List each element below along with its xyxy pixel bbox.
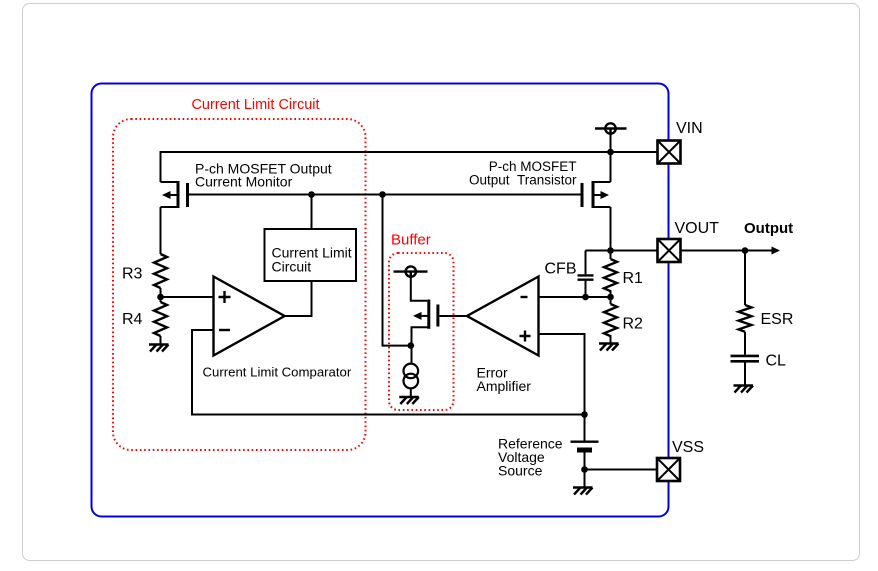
wire: monitor FET source to R3 xyxy=(160,207,162,254)
wire: comparator - input to reference rail xyxy=(192,330,585,415)
svg-text:VIN: VIN xyxy=(676,120,703,137)
wire: output FET drain to VOUT node xyxy=(610,207,612,251)
output arrow xyxy=(772,247,781,255)
node: gate net to buffer xyxy=(379,191,386,198)
wire: buffer drain xyxy=(411,277,428,301)
ground below R2 xyxy=(599,344,619,351)
wire: error amp + input to reference node xyxy=(539,334,585,415)
node: VOUT / R1 junction xyxy=(607,247,614,254)
wire: output node to ESR xyxy=(744,251,746,306)
current limit circuit block U1 xyxy=(265,229,357,281)
node: buffer source junction xyxy=(408,342,415,349)
wire: block to comparator output xyxy=(285,281,312,316)
resistor R3 xyxy=(154,254,167,288)
svg-text:R1: R1 xyxy=(623,270,644,287)
current limit circuit dotted boundary xyxy=(113,119,366,450)
svg-text:R2: R2 xyxy=(623,316,644,333)
node: gate net to current limit circuit xyxy=(308,191,315,198)
wire: CFB branch lower xyxy=(585,281,587,297)
wire: gate net between MOSFETs xyxy=(189,194,581,196)
IC boundary box xyxy=(92,84,669,517)
svg-text:R3: R3 xyxy=(122,266,143,283)
terminal VOUT xyxy=(658,239,681,262)
svg-text:ESR: ESR xyxy=(761,311,794,328)
wire: reference node to battery xyxy=(584,415,586,441)
node: CFB to feedback xyxy=(582,294,589,301)
svg-text:CFB: CFB xyxy=(545,261,577,278)
wire: gate node down to current limit circuit box xyxy=(311,195,313,230)
op-amp U3 error amplifier xyxy=(467,277,539,356)
wire: R2 to ground xyxy=(610,335,612,344)
transistor M1 P-ch MOSFET current monitor xyxy=(161,181,188,208)
svg-text:Output: Output xyxy=(744,220,793,237)
node: VIN rail junction xyxy=(607,149,614,156)
wire: R1 to R2 xyxy=(610,290,612,304)
terminal VIN xyxy=(658,141,681,164)
current source I1 xyxy=(404,364,419,389)
capacitor CL xyxy=(731,356,760,361)
op-amp U2 current limit comparator xyxy=(214,277,285,356)
ground below CL xyxy=(734,386,754,393)
svg-text:VSS: VSS xyxy=(672,439,704,456)
bulk terminal symbol at VIN tap xyxy=(595,123,627,134)
wire: ESR to CL xyxy=(744,332,746,355)
ground below reference xyxy=(573,488,593,495)
wire: VSS node to ground xyxy=(584,470,586,488)
wire: R4 to ground xyxy=(160,336,162,345)
wire: divider node to comparator + input xyxy=(161,296,214,298)
svg-text:Circuit: Circuit xyxy=(272,259,312,275)
svg-text:Buffer: Buffer xyxy=(391,232,431,249)
node: feedback divider xyxy=(607,294,614,301)
reference voltage source B1 xyxy=(571,442,599,450)
wire: R3 to R4 node xyxy=(160,288,162,302)
wire: error amp - input to feedback node xyxy=(539,296,611,298)
wire: error amp output to buffer gate xyxy=(440,315,468,317)
svg-text:R4: R4 xyxy=(122,311,143,328)
node: R3/R4 divider xyxy=(157,294,164,301)
resistor R4 xyxy=(154,302,167,336)
wire: gate node down to buffer source xyxy=(383,195,411,346)
transistor M3 buffer P-ch MOSFET xyxy=(412,300,438,364)
resistor R1 xyxy=(604,259,617,291)
node: reference rail junction xyxy=(581,411,588,418)
wire: battery to VSS pin xyxy=(585,453,657,470)
wire: CFB branch upper xyxy=(585,251,587,275)
wire: VOUT rail xyxy=(586,250,658,252)
wire: VOUT pin to output node xyxy=(681,250,773,252)
svg-text:Current Limit Comparator: Current Limit Comparator xyxy=(203,365,352,380)
buffer dotted boundary xyxy=(389,253,454,410)
svg-text:Current Monitor: Current Monitor xyxy=(195,174,293,190)
wire: R1 top stub xyxy=(610,251,612,260)
wire: VIN tap to output FET drain xyxy=(610,134,612,182)
wire: current source to ground xyxy=(410,388,412,397)
buffer bulk terminal symbol xyxy=(394,266,428,277)
svg-text:Source: Source xyxy=(498,463,543,479)
node: VSS net junction xyxy=(581,466,588,473)
wire: VIN rail (monitor FET drain to VIN pin) xyxy=(161,152,658,182)
svg-text:Output Transistor: Output Transistor xyxy=(469,173,577,188)
wire: CL to ground xyxy=(744,363,746,386)
ground below R4 xyxy=(149,345,169,352)
terminal VSS xyxy=(657,458,680,481)
ground below current source xyxy=(399,397,419,404)
svg-text:CL: CL xyxy=(766,353,787,370)
svg-text:Current Limit Circuit: Current Limit Circuit xyxy=(191,97,319,113)
node: output junction xyxy=(742,247,749,254)
resistor R2 xyxy=(604,304,617,336)
svg-text:VOUT: VOUT xyxy=(675,220,720,237)
resistor ESR xyxy=(739,305,752,332)
capacitor CFB xyxy=(578,275,594,279)
svg-text:Amplifier: Amplifier xyxy=(477,378,532,394)
transistor M2 P-ch MOSFET output transistor xyxy=(582,181,611,208)
